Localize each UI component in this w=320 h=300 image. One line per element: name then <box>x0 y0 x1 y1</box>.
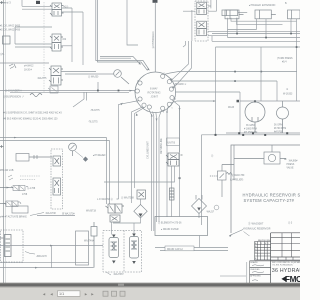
wire joint right y92 <box>175 92 240 133</box>
frame edge tick zone B <box>0 1 4 4</box>
svg-text:18-20 #: 18-20 # <box>24 70 33 72</box>
valve V1 (top left directional valve) <box>50 3 64 16</box>
small circle gauge near diamond <box>214 205 219 210</box>
bus vertical x72 <box>72 8 83 65</box>
return line y267 <box>0 267 94 269</box>
title block divider horizontal <box>250 260 300 262</box>
marker square top-left <box>36 1 40 4</box>
svg-text:●#? RELIEF: ●#? RELIEF <box>93 154 106 157</box>
svg-text:#2 CYL WAJ2 0456: #2 CYL WAJ2 0456 <box>0 29 21 32</box>
ladder junction dots <box>236 33 297 48</box>
svg-text:PRESS: PRESS <box>287 164 295 166</box>
svg-text:Ⓢ WAJ5087: Ⓢ WAJ5087 <box>248 222 264 226</box>
small component left of filters <box>91 222 97 268</box>
wire y215 <box>37 215 75 217</box>
svg-text:CHECKED: CHECKED <box>250 269 260 271</box>
arrowhead feed <box>285 158 288 160</box>
wires joint bottom fan <box>119 100 180 232</box>
cylinder ladder wires <box>212 18 300 101</box>
leader filters label <box>106 272 111 275</box>
svg-text:8 WAY: 8 WAY <box>150 87 158 91</box>
wire gauge leader <box>75 151 83 158</box>
svg-text:WAJ6718: WAJ6718 <box>86 210 97 213</box>
svg-text:-WAJ775: -WAJ775 <box>37 77 47 80</box>
drain cap line pair <box>155 236 228 251</box>
toolbar pager controls <box>42 291 54 296</box>
cylinder C3 <box>288 10 301 19</box>
svg-text:UNIT B: UNIT B <box>168 143 176 145</box>
valve V1 wires left <box>22 0 52 9</box>
svg-text:SYSTEM CAPACITY-27#: SYSTEM CAPACITY-27# <box>244 198 295 203</box>
svg-text:36 HYDRAU: 36 HYDRAU <box>272 268 300 274</box>
arrow on y245 <box>50 245 53 247</box>
bus y133 and y136 <box>202 133 301 225</box>
arrowheads into right ports <box>170 78 172 81</box>
wires valve block lower rails <box>208 31 300 41</box>
svg-text:FMC CORPORATION · EQUIPMENT DI: FMC CORPORATION · EQUIPMENT DIV <box>272 261 300 264</box>
revisions table <box>255 242 271 260</box>
wire gauge to valve V3 <box>88 73 114 75</box>
rotary joint ports <box>135 74 174 110</box>
svg-text:◄: ◄ <box>50 291 54 296</box>
FMC logo <box>281 275 302 284</box>
cylinder C1 <box>225 10 244 19</box>
svg-text:56 GPM: 56 GPM <box>274 125 283 127</box>
svg-text:5: 5 <box>172 108 173 110</box>
unit B tag box <box>167 138 180 146</box>
junction dots bus y90 <box>97 90 119 92</box>
svg-text:-76J1775: -76J1775 <box>88 122 98 124</box>
svg-text:(TURN PRESS: (TURN PRESS <box>277 58 293 60</box>
svg-text:APPROVED: APPROVED <box>250 275 261 278</box>
pump P1 port dot <box>254 100 256 102</box>
port arrow specks <box>120 103 181 121</box>
svg-text:W-16333: W-16333 <box>283 94 293 96</box>
svg-text:#75 JRS. FLORIDA BLVD.: #75 JRS. FLORIDA BLVD. <box>272 264 294 267</box>
filter FD (diamond) <box>134 205 147 218</box>
box left mid <box>16 154 52 162</box>
svg-text:RETURN LINE: RETURN LINE <box>161 138 163 154</box>
filter FD arrow <box>139 214 143 217</box>
valve V8 small <box>4 201 21 207</box>
return filter F2 <box>130 237 139 259</box>
wires diamond connections <box>112 199 141 235</box>
marker near pump <box>237 100 240 103</box>
reservoir feed valve box <box>234 145 286 180</box>
filter element small <box>170 188 175 200</box>
plain rect left <box>76 231 89 265</box>
marker square top-center node <box>153 0 158 3</box>
svg-text:#1/4: #1/4 <box>282 62 287 64</box>
return filter F1 <box>109 238 119 258</box>
gauge G2 <box>69 143 77 156</box>
rotary joint U1 (8-way rotating joint) <box>135 72 176 113</box>
svg-text:#8% AR LUB: #8% AR LUB <box>0 169 14 172</box>
valve V10 in stack <box>53 178 61 195</box>
valve V6 (below joint) <box>166 153 183 166</box>
svg-text:◄: ◄ <box>42 291 46 296</box>
arrow on y101 <box>213 100 216 102</box>
wire y63 left <box>0 62 49 64</box>
svg-text:(LH-RELIEF): (LH-RELIEF) <box>230 180 244 182</box>
valve block left rail <box>183 10 195 41</box>
left long bus y139/y141 <box>0 138 110 205</box>
svg-text:-WAJ1738: -WAJ1738 <box>45 212 56 215</box>
svg-text:# 1800 RPM: # 1800 RPM <box>244 129 257 131</box>
tick cluster <box>8 175 13 180</box>
svg-text:8: 8 <box>137 102 138 104</box>
return line y245 <box>0 245 103 247</box>
component small box left <box>3 36 11 44</box>
valve V4 <box>197 2 207 14</box>
wire corner drop x84 <box>73 92 87 107</box>
svg-text:3: 3 <box>175 88 176 90</box>
svg-text:☒ WAJ173#: ☒ WAJ173# <box>62 213 75 216</box>
svg-text:VALVE: VALVE <box>287 167 295 170</box>
svg-text:WAJ#: WAJ# <box>228 106 235 109</box>
signature cells <box>250 261 271 283</box>
svg-text:-WAJ736?: -WAJ736? <box>113 273 124 276</box>
valve stack column (dashed) <box>51 149 63 209</box>
toolbar icons <box>103 291 125 296</box>
leader accumulator <box>25 252 35 255</box>
svg-text:B.: B. <box>285 3 288 5</box>
svg-text:#1 CYL WAJ2 0455: #1 CYL WAJ2 0455 <box>0 25 21 28</box>
diamond tap <box>83 157 88 162</box>
pager forward buttons <box>84 291 95 296</box>
svg-text:►: ► <box>84 291 88 296</box>
svg-text:4: 4 <box>175 99 176 101</box>
drain filter box <box>155 217 208 236</box>
svg-text::sheed 3: :sheed 3 <box>0 0 11 4</box>
junction dots right wires <box>234 71 262 82</box>
filter F1 arrows <box>112 235 116 238</box>
svg-text:①: ① <box>286 88 288 91</box>
hose squiggle <box>30 94 42 97</box>
leader arrow to tank <box>230 230 244 236</box>
svg-text:1768: 1768 <box>22 194 28 196</box>
arrowhead upper-left port <box>139 62 142 64</box>
arrow on y267 <box>35 267 38 269</box>
svg-text:►: ► <box>91 291 95 296</box>
dashed pilot vertical x44 <box>43 2 45 92</box>
svg-text:36 GPM: 36 GPM <box>246 125 255 127</box>
bus vertical x127 <box>127 0 138 45</box>
svg-text:→WAJ80#: →WAJ80# <box>287 160 299 163</box>
svg-text:DRAWN: DRAWN <box>250 261 258 264</box>
wire riser x261 <box>260 47 262 101</box>
frame left border <box>4 0 6 283</box>
wire joint right y101 riser <box>171 101 216 103</box>
svg-text:##1 SUSPENSION CYL SHMT WJ2013: ##1 SUSPENSION CYL SHMT WJ2013 #55 4062 … <box>3 113 62 115</box>
valve V3b small <box>48 86 58 93</box>
svg-text:●# WAJ2: ●# WAJ2 <box>24 65 34 68</box>
wire upper-left diagonals into joint <box>100 57 139 64</box>
svg-text:/#9 56.5 40EH WC 800#/8LJ 3120: /#9 56.5 40EH WC 800#/8LJ 3120 #1 2003 A… <box>3 118 58 121</box>
pager box <box>58 291 81 297</box>
filter F2 arrows <box>132 234 136 237</box>
svg-text:-#WAJ17#: -#WAJ17# <box>36 255 47 258</box>
valve V2 (second directional valve) <box>50 34 63 51</box>
pump bus top <box>240 100 300 102</box>
signature labels <box>250 261 261 278</box>
leader arrow brake <box>30 213 44 216</box>
frame edge tick zone A <box>0 145 4 148</box>
svg-text:DRAIN CAP-12: DRAIN CAP-12 <box>167 248 184 251</box>
cylinder C2 <box>255 10 276 19</box>
valve V11 <box>106 204 125 213</box>
viewer toolbar <box>0 287 300 300</box>
gauge G1 (pressure gauge) <box>114 70 129 84</box>
frame edge tick <box>0 237 4 239</box>
svg-text:●##-#? ACTUATE BRAKE: ●##-#? ACTUATE BRAKE <box>0 216 27 219</box>
company address lines <box>272 261 306 267</box>
svg-text:JOINT: JOINT <box>151 95 159 99</box>
svg-text:7: 7 <box>147 111 148 113</box>
svg-text:-56J1238 ⚔: -56J1238 ⚔ <box>174 83 186 86</box>
wire joint right upper <box>165 72 298 102</box>
reservoir tank outline <box>231 145 300 233</box>
wire long riser x215 <box>215 47 217 135</box>
valve V3 (third directional valve) <box>49 66 63 85</box>
port number labels <box>134 73 176 114</box>
pilot filter diamond <box>192 195 207 218</box>
valve V1 wire right to bus <box>62 8 84 12</box>
arrow into joint top-left <box>147 68 150 70</box>
valve V12 <box>110 215 120 222</box>
pilot filter arrow <box>197 208 201 211</box>
bus junction dots <box>215 132 289 136</box>
valve V7 small <box>0 186 28 204</box>
valve V13 above diamond <box>137 190 146 199</box>
svg-text:HYDRAULIC RESERVOIR: HYDRAULIC RESERVOIR <box>243 228 271 231</box>
svg-text:WAJ746#: WAJ746# <box>84 240 95 243</box>
dash marks brake area <box>20 176 40 180</box>
relief valve RV1 <box>209 165 234 198</box>
cylinder C4 (horizontal) <box>222 10 247 16</box>
bus vertical pair x96 <box>96 0 149 71</box>
valve block B (upper right, dashed enclosure) <box>195 1 208 41</box>
wire bus pair left y90 <box>0 82 135 92</box>
valve V3 wires <box>61 72 96 75</box>
valve V5 <box>197 21 207 36</box>
box brake <box>12 206 28 213</box>
filters dashed enclosure <box>103 231 142 273</box>
drop x51 <box>51 246 53 268</box>
valve V2 wires left <box>15 27 52 47</box>
valve V9 in stack <box>53 156 61 166</box>
wire risers block to joint <box>172 41 192 88</box>
svg-text:● DRAIN FILTER: ● DRAIN FILTER <box>161 228 179 231</box>
valve V2 wire right <box>61 45 72 47</box>
arrowhead left bus <box>130 90 133 92</box>
svg-text:6: 6 <box>163 112 164 114</box>
svg-text:ROTATING: ROTATING <box>148 91 161 95</box>
arrow on bus y139 <box>14 137 17 139</box>
svg-text:-WAJ1?: -WAJ1? <box>206 211 215 214</box>
tick cluster left mid <box>9 64 16 69</box>
svg-text:HYDRAULIC RESERVOIR S: HYDRAULIC RESERVOIR S <box>243 193 301 198</box>
svg-text:●/TRAILER EXTENSION: ●/TRAILER EXTENSION <box>249 4 276 7</box>
small marks left of title block <box>220 232 250 284</box>
svg-text:-78J1775: -78J1775 <box>90 110 100 112</box>
signature scribbles <box>252 265 264 281</box>
wire V6 down <box>104 106 180 217</box>
pump P1 (main pump) <box>245 101 283 133</box>
rev letters <box>255 242 269 260</box>
accumulator filter bottom-left <box>5 235 12 257</box>
drain cap box <box>165 246 194 251</box>
pump P2 (aux pump) <box>277 101 289 119</box>
svg-text:1/1: 1/1 <box>59 292 64 296</box>
title block outer vertical <box>270 233 272 283</box>
scan bottom dark band <box>0 283 300 287</box>
svg-text:CYL LINES UNIT: CYL LINES UNIT <box>148 141 150 159</box>
svg-text:#1700 RPM: #1700 RPM <box>274 128 286 130</box>
svg-text:REVISIONS: REVISIONS <box>258 240 270 242</box>
title table A rows <box>271 233 300 260</box>
accumulator dashed enclosure <box>1 230 24 262</box>
wire top vertical into joint <box>154 3 156 72</box>
wires valve block to cylinder C4 <box>208 0 297 25</box>
return line y262 <box>0 262 89 264</box>
